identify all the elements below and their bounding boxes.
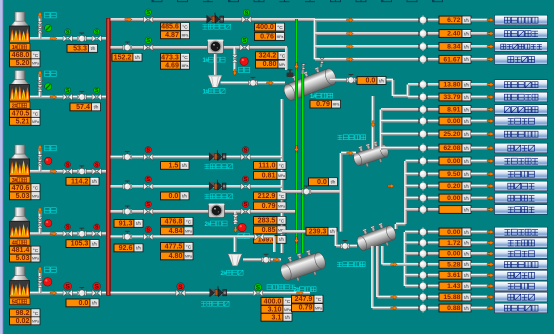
- svg-text:°C: °C: [285, 299, 291, 305]
- flow 酒糟饲料 61.67 t/h: [439, 55, 471, 63]
- wire: [427, 230, 439, 234]
- stop valve B5b: [92, 290, 101, 297]
- valve 饲料二四效: [418, 93, 427, 102]
- boiler B4: [10, 207, 30, 237]
- trunk mid vertical: [339, 153, 343, 232]
- svg-text:0.81: 0.81: [262, 171, 276, 179]
- svg-text:33.79: 33.79: [443, 94, 460, 101]
- trunk group1: [313, 20, 317, 60]
- wire group3: [383, 262, 420, 266]
- svg-text:t/h: t/h: [464, 241, 469, 246]
- svg-text:476.8: 476.8: [165, 217, 183, 225]
- flow 二期采暖 9.50 t/h: [439, 170, 471, 178]
- temp M2 out 324.2 C: [256, 52, 288, 60]
- temp M1 485.6 C: [161, 23, 190, 31]
- valve M3a: [144, 154, 153, 161]
- pipe deaerator1 to cylinder1: [221, 81, 286, 85]
- label button 三期换热站: [495, 29, 548, 39]
- label 二期分气缸: [338, 135, 366, 140]
- svg-text:S: S: [244, 202, 248, 208]
- svg-text:114.2: 114.2: [71, 177, 88, 185]
- flow alcohol 3.1 t/h: [261, 313, 292, 321]
- svg-text:°C: °C: [33, 186, 39, 192]
- svg-text:468.0: 468.0: [12, 51, 30, 59]
- label 1#锅炉: [10, 44, 31, 51]
- valve 三期无水: [418, 194, 427, 203]
- flow 一期制冷站 0.00 t/h: [439, 228, 471, 236]
- wire group2: [406, 172, 420, 176]
- trunk group3a: [403, 232, 407, 286]
- svg-text:t/h: t/h: [464, 295, 469, 300]
- vent valve B3a: [37, 155, 43, 162]
- label 排空 B4: [45, 208, 57, 213]
- svg-text:MPa: MPa: [182, 64, 189, 68]
- svg-text:°C: °C: [279, 218, 285, 224]
- pressure B3 5.03 MPa: [10, 192, 41, 200]
- vent valve B4a: [37, 217, 43, 224]
- pipe to cylinder3: [282, 230, 336, 234]
- svg-text:MPa: MPa: [32, 194, 39, 198]
- svg-text:t/h: t/h: [464, 146, 469, 151]
- svg-text:91.3: 91.3: [119, 219, 133, 227]
- flow arrow 二期无水: [487, 207, 494, 212]
- svg-text:t/h: t/h: [182, 194, 187, 199]
- flow arrow alcohol: [297, 291, 304, 296]
- flow arrow: [347, 57, 354, 62]
- status M4b: [242, 176, 248, 183]
- wire group2: [406, 159, 420, 163]
- boiler B3: [10, 145, 30, 175]
- svg-text:1.5: 1.5: [169, 161, 179, 169]
- wire: [427, 252, 439, 256]
- svg-text:212.9: 212.9: [258, 192, 276, 200]
- wire group3: [405, 284, 420, 288]
- svg-text:MPa: MPa: [32, 120, 39, 124]
- control valve M3: [123, 151, 132, 160]
- label button 饲料一蒸发: [495, 303, 548, 313]
- svg-text:4.80: 4.80: [169, 252, 183, 260]
- flow 一期粉碎 0.00 t/h: [439, 250, 471, 258]
- pipe M3: [111, 155, 283, 159]
- svg-text:t/h: t/h: [136, 221, 141, 226]
- vent arrow B4: [38, 207, 42, 213]
- wire: [471, 95, 488, 99]
- pipe M6 to deaerator2: [233, 237, 237, 252]
- svg-text:MPa: MPa: [32, 62, 39, 66]
- label button 预处理预榨: [495, 105, 548, 115]
- svg-text:MPa: MPa: [185, 255, 192, 259]
- svg-text:3.61: 3.61: [447, 272, 460, 279]
- wire: [471, 82, 488, 86]
- flow 饲料一蒸发 0.88 t/h: [439, 304, 471, 312]
- stub valve c1b: [320, 58, 324, 63]
- svg-text:5.03: 5.03: [16, 192, 30, 200]
- label 排空 B5: [45, 267, 57, 272]
- vent indicator B4 (closed): [45, 220, 52, 227]
- trunk group3c: [375, 246, 379, 297]
- flow B5 0.0 t/h: [66, 299, 99, 307]
- svg-text:0.00: 0.00: [447, 158, 460, 165]
- svg-text:S: S: [66, 225, 70, 231]
- label 减温减压器 R2: [205, 164, 233, 169]
- flow 酒糟饲料新干燥 8.34 t/h: [439, 43, 471, 51]
- svg-text:S: S: [146, 38, 150, 44]
- wire: [427, 172, 439, 176]
- svg-text:324.2: 324.2: [259, 52, 277, 60]
- pressure M2 4.69 MPa: [161, 61, 190, 69]
- main steam header (red pipe): [106, 18, 111, 296]
- flow arrow 二期制冷站: [487, 159, 494, 164]
- valve 一期制冷站: [418, 228, 427, 237]
- wire group2: [406, 196, 420, 200]
- wire group1: [315, 18, 420, 22]
- flow arrow 三期预处理: [487, 18, 494, 23]
- flow arrow down green: [294, 237, 298, 243]
- pipe cylinder1 outlet: [330, 78, 393, 82]
- vent pipe B2: [38, 72, 42, 97]
- temp M2 473.3 C: [161, 53, 190, 61]
- wire: [394, 224, 398, 229]
- svg-text:4.84: 4.84: [169, 227, 183, 235]
- vent arrow M2: [233, 69, 237, 75]
- wire: [427, 82, 439, 86]
- wire group1: [315, 31, 420, 35]
- pressure B2 5.21 MPa: [10, 117, 41, 125]
- vent valve B2b: [37, 85, 43, 92]
- flow 饲料二四效 33.79 t/h: [439, 93, 471, 101]
- valve 酒糟饲料: [418, 55, 427, 64]
- svg-text:t/h: t/h: [182, 163, 187, 168]
- flow arrow 三期换热站: [487, 31, 494, 36]
- svg-text:°C: °C: [186, 219, 192, 225]
- flow B4 105.3 t/h: [66, 240, 99, 248]
- label button 一期粉碎: [495, 249, 548, 259]
- pipe deaerator2 to cylinder4: [243, 258, 281, 262]
- flow arrow 酒二糖化: [487, 184, 494, 189]
- flow arrow 饲料二干燥: [487, 132, 494, 137]
- svg-text:9.50: 9.50: [447, 171, 460, 178]
- svg-text:0.20: 0.20: [447, 183, 460, 190]
- value blank t/h: [439, 206, 471, 214]
- wire group3: [405, 230, 420, 234]
- vent indicator B3 (closed): [45, 157, 52, 164]
- stub valve c1a: [301, 64, 305, 69]
- wire: [427, 241, 439, 245]
- wire: [471, 306, 488, 310]
- control valve D1: [249, 77, 258, 86]
- svg-text:0.00: 0.00: [447, 229, 460, 236]
- pressure M2 out 0.80 MPa: [256, 60, 288, 68]
- svg-text:t/h: t/h: [464, 251, 469, 256]
- pressure B4 5.03 MPa: [10, 254, 41, 262]
- svg-text:MPa: MPa: [278, 174, 285, 178]
- status B2b: [94, 87, 100, 94]
- svg-text:15.88: 15.88: [443, 294, 460, 301]
- svg-text:0.85: 0.85: [262, 226, 276, 234]
- pressure B1 5.20 MPa: [10, 59, 41, 67]
- valve alcohol: [253, 290, 262, 297]
- label button 酒糟饲料新干燥: [495, 42, 548, 52]
- svg-text:5.21: 5.21: [16, 117, 30, 125]
- valve M5b: [241, 208, 250, 215]
- wire group3: [405, 252, 420, 256]
- svg-text:98.2: 98.2: [16, 309, 30, 317]
- svg-text:0.80: 0.80: [263, 60, 277, 68]
- flow arrow M1: [125, 17, 132, 22]
- vent pipe B3: [38, 146, 42, 171]
- label 3#锅炉: [10, 176, 31, 183]
- wire: [471, 241, 488, 245]
- wire: [471, 196, 488, 200]
- wire: [471, 57, 488, 61]
- valve 一期粉碎: [418, 249, 427, 258]
- pressure M1 4.87 MPa: [161, 31, 190, 39]
- vessel 2#分气缸: [277, 246, 328, 285]
- boiler B1: [10, 12, 30, 42]
- stop valve B2a: [63, 94, 72, 101]
- svg-text:8.34: 8.34: [447, 44, 460, 51]
- svg-text:3.10: 3.10: [268, 305, 282, 313]
- vent arrow B2: [38, 70, 42, 76]
- wire: [396, 222, 406, 226]
- label button 二期无水: [495, 205, 548, 215]
- svg-text:0.79: 0.79: [316, 100, 330, 108]
- svg-text:5.03: 5.03: [16, 254, 30, 262]
- control valve branch mid: [302, 186, 311, 195]
- pressure M1 out 0.76 MPa: [255, 33, 285, 41]
- flow arrow: [391, 295, 397, 299]
- pressure M5 4.84 MPa: [161, 227, 194, 235]
- label button 酒二蒸馏: [495, 143, 548, 153]
- status B5b: [93, 282, 101, 290]
- vessel 一期分气缸: [354, 220, 399, 255]
- svg-text:0.00: 0.00: [447, 118, 460, 125]
- deaerator D2: [228, 254, 242, 266]
- status B5ext: [177, 283, 185, 291]
- control valve D2: [262, 254, 271, 263]
- svg-text:1.72: 1.72: [447, 240, 460, 247]
- svg-text:°C: °C: [280, 54, 286, 60]
- status M1a: [145, 9, 151, 16]
- svg-text:1.43: 1.43: [447, 283, 460, 290]
- svg-text:2.40: 2.40: [447, 31, 460, 38]
- svg-text:0.79: 0.79: [262, 202, 276, 210]
- wire group1: [315, 57, 420, 61]
- pressure reducer R2: [209, 150, 226, 160]
- svg-text:t/h: t/h: [464, 172, 469, 177]
- trunk group2b: [379, 110, 383, 151]
- vent arrow M5: [234, 226, 238, 232]
- svg-text:°C: °C: [277, 25, 283, 31]
- vessel 1#分气缸: [280, 62, 338, 102]
- svg-text:°C: °C: [279, 163, 285, 169]
- svg-text:S: S: [66, 162, 70, 168]
- flow arrow B2: [50, 95, 57, 100]
- stop valve B5a: [63, 290, 72, 297]
- valve 饲料一干燥: [418, 260, 427, 269]
- label button 饲料二干燥: [495, 129, 548, 139]
- pipe M6 down to cylinder4: [272, 237, 276, 252]
- temp M3 out 111.0 C: [254, 161, 287, 169]
- svg-text:t/h: t/h: [285, 315, 290, 320]
- trunk cylinder1 out down: [391, 80, 395, 96]
- svg-text:S: S: [95, 225, 99, 231]
- valve 酒二蒸馏: [418, 144, 427, 153]
- label 4#锅炉: [10, 239, 31, 246]
- flow 三期预处理 6.72 t/h: [439, 16, 471, 24]
- svg-text:0.0: 0.0: [169, 192, 179, 200]
- flow arrow 酒糟饲料: [487, 57, 494, 62]
- flow arrow: [347, 44, 354, 49]
- svg-text:53.3: 53.3: [73, 44, 87, 52]
- svg-text:S: S: [178, 284, 183, 291]
- vent pipe B4: [38, 209, 42, 234]
- svg-text:485.6: 485.6: [161, 23, 179, 31]
- status M2b: [241, 37, 247, 44]
- wire: [471, 159, 488, 163]
- svg-text:t/h: t/h: [464, 82, 469, 87]
- pressure M3 out 0.81 MPa: [254, 171, 287, 179]
- vent valve B5a: [37, 276, 43, 283]
- vent pipe M2: [233, 48, 237, 72]
- label 排空 B2: [45, 71, 57, 76]
- label 排空 M2: [239, 67, 250, 72]
- stop valve B1a: [63, 35, 72, 42]
- elbow M2 down to cylinder1 inlet: [284, 48, 288, 71]
- title text: [152, 0, 443, 2]
- pipe boiler 3 outlet: [29, 169, 106, 173]
- svg-text:°C: °C: [33, 111, 39, 117]
- svg-text:470.6: 470.6: [12, 184, 30, 192]
- temperature B1 468.0 C: [10, 51, 41, 59]
- svg-text:5.28: 5.28: [447, 261, 460, 268]
- flow 饲料二五效 13.80 t/h: [439, 81, 471, 89]
- pipe M2: [111, 45, 288, 49]
- flow 三期换热站 2.40 t/h: [439, 30, 471, 38]
- valve 酒一蒸馏: [418, 293, 427, 302]
- svg-text:477.5: 477.5: [165, 242, 183, 250]
- wire: [471, 132, 488, 136]
- elbow to cylinder3: [334, 232, 338, 246]
- svg-text:t/h: t/h: [464, 107, 469, 112]
- turbine T1: [208, 40, 224, 54]
- svg-text:t/h: t/h: [464, 31, 469, 36]
- status B4a: [65, 224, 71, 231]
- vent valve B4b: [37, 222, 43, 229]
- valve 酒一蒸煮: [418, 271, 427, 280]
- svg-text:0.0: 0.0: [366, 77, 376, 85]
- svg-text:t/h: t/h: [92, 179, 97, 184]
- svg-text:t/h: t/h: [464, 132, 469, 137]
- control valve M6: [123, 231, 132, 240]
- svg-text:473.3: 473.3: [161, 53, 179, 61]
- svg-text:°C: °C: [33, 248, 39, 254]
- control valve B5: [77, 287, 86, 296]
- flow 一期采暖 1.43 t/h: [439, 282, 471, 290]
- wire group2: [381, 119, 420, 123]
- svg-text:400.0: 400.0: [264, 297, 282, 305]
- flow arrow down green: [294, 63, 298, 69]
- flow arrow B3: [50, 169, 57, 174]
- control valve M2: [123, 42, 132, 51]
- temp M4 out 212.9 C: [254, 192, 287, 200]
- cylinder1 inlet fitting: [287, 70, 294, 78]
- flow cylinder1 out 0.0 t/h: [357, 77, 386, 85]
- wire: [471, 146, 488, 150]
- stop valve B3a: [63, 168, 72, 175]
- temperature B2 470.5 C: [10, 109, 41, 117]
- flow arrow 饲料二五效: [487, 82, 494, 87]
- wire group3: [405, 273, 420, 277]
- flow arrow B4: [50, 231, 57, 236]
- vent pipe B1: [38, 14, 42, 39]
- wire group2: [381, 132, 420, 136]
- svg-text:5.20: 5.20: [16, 59, 30, 67]
- svg-text:t/h: t/h: [464, 57, 469, 62]
- status B3b: [94, 162, 100, 169]
- svg-text:0.00: 0.00: [447, 195, 460, 202]
- valve M4a: [144, 183, 153, 190]
- svg-text:247.9: 247.9: [295, 295, 313, 303]
- wire: [427, 273, 439, 277]
- valve 二期采暖: [418, 170, 427, 179]
- wire: [427, 119, 439, 123]
- valve M6a: [144, 234, 153, 241]
- wire: [471, 172, 488, 176]
- svg-text:MPa: MPa: [277, 35, 284, 39]
- wire group2: [408, 82, 420, 86]
- svg-text:S: S: [244, 148, 248, 154]
- label button 饲料一干燥: [495, 260, 548, 270]
- pressure cylinder4 0.79 MPa: [292, 304, 324, 312]
- valve M2b: [240, 44, 249, 51]
- valve 二期粉碎: [418, 117, 427, 126]
- svg-text:°C: °C: [33, 311, 39, 317]
- flow arrow down: [371, 121, 375, 127]
- pipe boiler 2 outlet: [29, 95, 106, 99]
- vent valve B3b: [37, 159, 43, 166]
- label 1#汽轮机: [203, 57, 226, 64]
- pressure reducer R4: [210, 286, 227, 296]
- valve M4b: [241, 183, 250, 190]
- label 2#锅炉: [10, 102, 31, 109]
- flow B1 53.3 t/h: [67, 44, 98, 52]
- boiler B5: [10, 267, 30, 297]
- stop valve B1b: [92, 35, 101, 42]
- valve 酒二糖化: [418, 182, 427, 191]
- vent indicator M2: [240, 57, 248, 65]
- flow arrow 二氧化碳: [487, 241, 494, 246]
- svg-text:t/h: t/h: [279, 237, 284, 242]
- svg-text:S: S: [146, 10, 150, 16]
- svg-text:25.20: 25.20: [443, 131, 460, 138]
- flow 预处理预榨 8.91 t/h: [439, 106, 471, 114]
- svg-text:57.4: 57.4: [76, 103, 90, 111]
- green pipe B: [301, 74, 304, 253]
- pressure B5 0.02 MPa: [10, 317, 41, 325]
- vent valve B1b: [37, 26, 43, 33]
- feed cylinder2: [371, 96, 375, 149]
- svg-text:MPa: MPa: [182, 33, 189, 37]
- stop valve B3b: [92, 168, 101, 175]
- svg-text:MPa: MPa: [333, 103, 340, 107]
- flow B2 57.4 t/h: [70, 103, 101, 111]
- wire: [427, 146, 439, 150]
- control valve B1: [77, 33, 86, 42]
- flow arrow 酒二蒸馏: [487, 146, 494, 151]
- pressure M4 out 0.79 MPa: [254, 202, 287, 210]
- flow arrow B5: [50, 291, 57, 296]
